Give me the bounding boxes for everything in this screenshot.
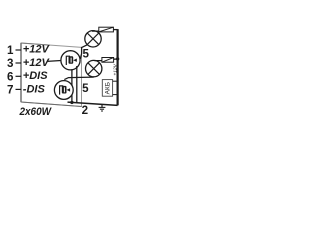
lamp EL1 circle: [85, 31, 101, 47]
svg-text:6: 6: [7, 71, 14, 84]
connector X1 plug arrow: [73, 59, 77, 62]
ground symbol bars: [99, 107, 106, 111]
+12V bus (right vertical): [116, 29, 118, 105]
connector X1 circle: [61, 51, 80, 70]
connector X1 plug slit: [71, 58, 72, 63]
control unit box (switch unit outline): [21, 43, 82, 107]
svg-text:1: 1: [7, 44, 14, 57]
svg-text:2x60W: 2x60W: [19, 106, 53, 118]
wire W1 connector X1 bottom to ground line: [71, 69, 73, 102]
ground wire (bottom horizontal): [68, 102, 118, 105]
svg-text:5: 5: [82, 82, 89, 95]
connector X2 circle: [54, 81, 73, 100]
wire lamp EL1 to connector X1: [80, 45, 87, 59]
fuse FU2: [102, 58, 114, 63]
pin 6 stub: [16, 75, 22, 77]
pin 3 stub: [16, 62, 22, 64]
lamp EL1 cross: [87, 33, 99, 45]
fuse FU1: [99, 27, 114, 32]
lamp EL2 circle: [86, 60, 102, 76]
wire W2 connector X1 lower-right to ground line: [76, 66, 78, 103]
wire lamp EL1 top to fuse FU1: [93, 30, 99, 32]
svg-text:5: 5: [82, 48, 89, 61]
junction dot on +12V bus: [116, 57, 119, 60]
svg-text:3: 3: [7, 57, 14, 70]
battery GB box (AKB): [102, 80, 112, 97]
wire fuse FU2 to +12V bus: [114, 58, 118, 60]
svg-text:+DIS: +DIS: [23, 70, 48, 82]
wire fuse FU1 to +12V bus: [113, 29, 117, 31]
connector X1 socket bracket: [66, 56, 70, 65]
connector X2 plug slit: [64, 87, 65, 92]
connector X2 plug block: [62, 86, 67, 94]
svg-text:+12V: +12V: [113, 63, 119, 75]
wire lamp EL2 top to fuse FU2: [94, 60, 102, 62]
battery GB stub bottom to bus: [113, 94, 117, 96]
pin 1 stub: [16, 49, 22, 51]
battery GB stub top to bus: [113, 80, 117, 82]
connector X2 plug arrow: [67, 88, 71, 91]
lamp EL2 cross: [88, 63, 100, 75]
connector X1 plug block: [69, 56, 74, 64]
svg-text:2: 2: [82, 104, 88, 117]
svg-text:-DIS: -DIS: [23, 83, 46, 95]
junction dot W1/ground wire: [70, 101, 73, 104]
pin 7 stub: [16, 88, 22, 90]
svg-text:+12V: +12V: [23, 57, 51, 69]
wire H3 connector X2 to lamp EL2 bottom: [64, 77, 93, 80]
ground symbol stub: [101, 104, 103, 107]
wire from +12V row to connector X1: [47, 60, 61, 63]
connector X2 socket bracket: [60, 86, 64, 95]
svg-text:+12V: +12V: [23, 44, 51, 56]
svg-text:АКБ: АКБ: [105, 82, 112, 94]
svg-text:7: 7: [7, 84, 13, 97]
